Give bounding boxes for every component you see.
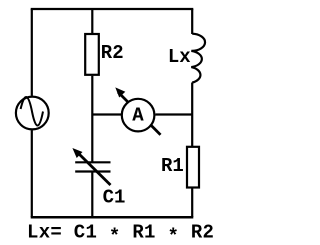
- svg-text:R2: R2: [101, 42, 124, 64]
- svg-text:A: A: [132, 104, 144, 126]
- svg-text:Lx: Lx: [168, 46, 191, 68]
- svg-text:C1: C1: [103, 186, 126, 208]
- svg-text:Lx= C1 * R1 * R2: Lx= C1 * R1 * R2: [27, 222, 214, 245]
- svg-text:R1: R1: [161, 155, 184, 177]
